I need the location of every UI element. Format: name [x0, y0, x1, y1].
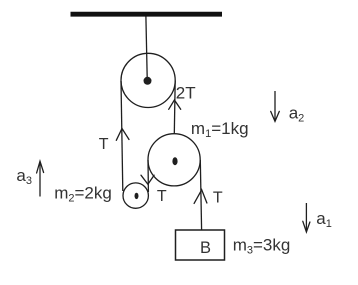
acceleration arrow a1 (down)	[305, 203, 307, 231]
svg-text:T: T	[157, 188, 167, 205]
tension arrow 2T	[169, 100, 181, 109]
rope ceiling to fixed pulley	[146, 17, 147, 79]
pulley m1	[148, 134, 200, 186]
ceiling	[71, 12, 223, 17]
tension arrow T middle (down)	[141, 175, 154, 184]
axle dot m1	[172, 157, 177, 165]
rope m1 to block B	[200, 160, 201, 230]
svg-text:a2: a2	[289, 103, 305, 124]
svg-text:m3=3kg: m3=3kg	[233, 235, 291, 256]
svg-text:a3: a3	[16, 166, 32, 187]
tension arrow T right	[194, 190, 207, 204]
svg-text:2T: 2T	[176, 83, 196, 102]
svg-text:m2=2kg: m2=2kg	[54, 184, 112, 205]
tension arrow T left	[116, 129, 129, 141]
svg-text:a1: a1	[316, 209, 332, 230]
pulley m2	[123, 183, 148, 208]
svg-text:m1=1kg: m1=1kg	[191, 119, 249, 140]
svg-text:B: B	[200, 239, 211, 257]
svg-text:T: T	[99, 136, 109, 153]
axle dot fixed pulley	[144, 77, 152, 85]
acceleration arrow a3 (up)	[39, 162, 41, 197]
fixed pulley	[121, 53, 175, 107]
rope fixed pulley to m2 (left T side)	[121, 81, 123, 191]
svg-text:T: T	[213, 189, 223, 206]
acceleration arrow a2 (down)	[274, 91, 276, 121]
block B	[176, 230, 225, 260]
rope m1 to m2 (middle T)	[147, 160, 149, 192]
rope fixed pulley to m1 (2T side)	[173, 81, 176, 135]
axle dot m2	[135, 193, 139, 199]
